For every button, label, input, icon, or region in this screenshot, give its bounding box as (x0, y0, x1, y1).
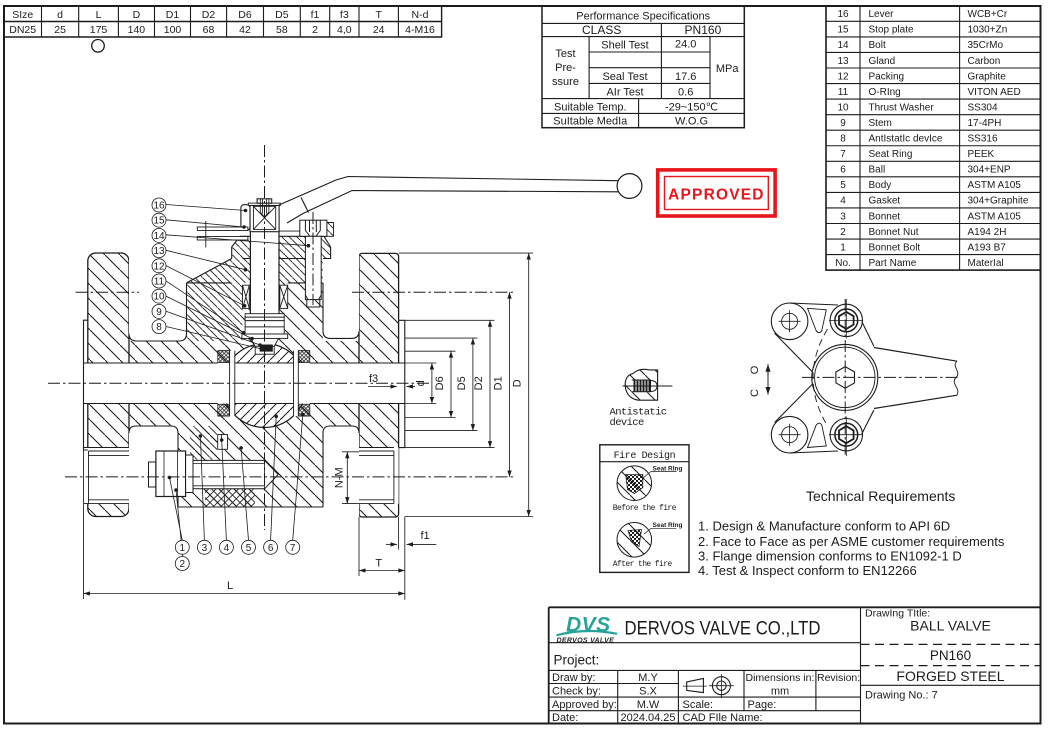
balloon 1 (175, 540, 189, 554)
gland outline (item 13) (187, 236, 331, 283)
svg-text:175: 175 (90, 24, 108, 36)
stem hex (836, 367, 855, 389)
svg-text:15: 15 (837, 25, 849, 36)
svg-text:After the fire: After the fire (613, 560, 673, 569)
svg-text:T: T (375, 558, 382, 570)
projection symbol (687, 678, 704, 692)
svg-text:11: 11 (838, 87, 849, 98)
svg-text:4. Test & Inspect conform to: 4. Test & Inspect conform to EN12266 (698, 563, 917, 578)
bonnet flange (hatched) (187, 283, 243, 341)
svg-text:DERVOS VALVE CO.,LTD: DERVOS VALVE CO.,LTD (625, 619, 821, 640)
svg-text:13: 13 (153, 246, 165, 257)
svg-text:D1: D1 (493, 376, 505, 390)
svg-text:SIze: SIze (12, 9, 33, 21)
svg-text:device: device (610, 417, 645, 429)
svg-text:A194 2H: A194 2H (968, 227, 1007, 238)
balloon 2 (175, 557, 189, 571)
svg-text:58: 58 (276, 24, 288, 36)
gland bolt (item 14) (300, 220, 327, 307)
svg-text:APPROVED: APPROVED (668, 187, 765, 204)
svg-text:14: 14 (153, 231, 165, 242)
svg-text:11: 11 (154, 277, 165, 288)
svg-text:7: 7 (290, 543, 296, 554)
svg-text:17.6: 17.6 (675, 71, 696, 83)
seat rings checkered (item 7) (218, 351, 310, 416)
svg-text:CAD FIle Name:: CAD FIle Name: (683, 712, 763, 724)
svg-text:10: 10 (837, 102, 849, 113)
svg-text:Gland: Gland (869, 56, 896, 67)
svg-text:MaterIal: MaterIal (968, 258, 1004, 269)
svg-text:Carbon: Carbon (968, 56, 1001, 67)
svg-text:d: d (415, 380, 427, 386)
svg-text:D6: D6 (238, 9, 252, 21)
APPROVED stamp (658, 170, 775, 216)
svg-text:35CrMo: 35CrMo (968, 40, 1004, 51)
svg-text:D2: D2 (473, 376, 485, 390)
antistatic device (item 8) (260, 345, 273, 352)
upper right U channel (white) (323, 259, 359, 339)
svg-text:A193 B7: A193 B7 (968, 242, 1007, 253)
upper left U channel (white) (129, 250, 187, 341)
svg-text:D2: D2 (202, 9, 216, 21)
balloon 15 (152, 213, 166, 227)
thrust washer and o-ring stack (items 10,11) (242, 314, 288, 354)
title block grid (549, 607, 1041, 723)
svg-text:304+Graphite: 304+Graphite (968, 196, 1029, 207)
dimension d (431, 363, 433, 404)
upper ear lug (771, 303, 808, 340)
svg-text:68: 68 (203, 24, 215, 36)
svg-text:3. Flange dimension conforms t: 3. Flange dimension conforms to EN1092-1… (698, 549, 962, 564)
svg-text:1: 1 (840, 242, 846, 253)
svg-text:9: 9 (156, 307, 162, 318)
stem top square block with cross (250, 205, 279, 231)
stem stud end (260, 199, 269, 217)
svg-text:SS316: SS316 (968, 134, 998, 145)
handle top view (874, 348, 957, 409)
svg-text:24: 24 (373, 24, 385, 36)
left raised face (84, 320, 88, 450)
dimension D2 (489, 320, 491, 447)
svg-text:C: C (749, 389, 761, 397)
svg-text:2. Face to Face as per ASME cu: 2. Face to Face as per ASME customer req… (698, 534, 1005, 549)
after-fire seat detail (617, 523, 652, 558)
svg-text:2: 2 (180, 559, 186, 570)
left flange lower bolt slot (white) (84, 448, 129, 504)
stem column (item 9) (250, 232, 279, 314)
svg-text:140: 140 (128, 24, 146, 36)
dimension T (359, 570, 405, 572)
svg-text:4: 4 (224, 543, 230, 554)
svg-text:Part Name: Part Name (869, 258, 917, 269)
parts list table (826, 6, 1041, 270)
svg-text:Approved by:: Approved by: (552, 699, 617, 711)
leader lines bottom row (170, 415, 303, 557)
dimension D6 (450, 351, 452, 417)
svg-text:Scale:: Scale: (683, 699, 714, 711)
svg-text:3: 3 (202, 543, 208, 554)
svg-text:Page:: Page: (748, 699, 777, 711)
svg-text:1: 1 (180, 543, 186, 554)
svg-text:d: d (57, 9, 63, 21)
svg-text:S.X: S.X (639, 685, 657, 697)
top view hub (812, 344, 878, 410)
centerlines (48, 145, 514, 530)
left flange tapped hole lines (84, 448, 129, 504)
svg-text:BALL VALVE: BALL VALVE (910, 618, 991, 634)
svg-text:SuItable MedIa: SuItable MedIa (553, 116, 628, 128)
dimension D1 (509, 292, 511, 477)
body right flange (hatched) (359, 253, 399, 517)
svg-text:D6: D6 (434, 376, 446, 390)
svg-text:Suitable Temp.: Suitable Temp. (554, 102, 627, 114)
svg-text:4,0: 4,0 (337, 24, 352, 36)
svg-text:Revision:: Revision: (817, 672, 860, 684)
extension lines (84, 253, 534, 600)
svg-text:Lever: Lever (869, 9, 895, 20)
svg-text:AIr Test: AIr Test (606, 87, 643, 99)
svg-text:6: 6 (840, 165, 846, 176)
svg-text:Seat Ring: Seat Ring (869, 149, 913, 160)
small circle below L column (92, 40, 105, 53)
svg-text:Draw by:: Draw by: (552, 672, 595, 684)
svg-text:Drawing No.: 7: Drawing No.: 7 (865, 690, 938, 702)
svg-text:Bonnet: Bonnet (869, 211, 901, 222)
balloon 3 (197, 540, 211, 554)
svg-text:ssure: ssure (552, 76, 579, 88)
svg-text:Test: Test (555, 48, 575, 60)
svg-text:10: 10 (153, 292, 165, 303)
svg-text:No.: No. (835, 258, 851, 269)
svg-text:8: 8 (840, 134, 846, 145)
balloon 9 (152, 304, 166, 318)
svg-text:Bolt: Bolt (869, 40, 886, 51)
lower ear lug (771, 416, 808, 453)
svg-text:Technical Requirements: Technical Requirements (806, 488, 955, 504)
balloon 12 (152, 259, 166, 273)
performance specifications table (542, 6, 744, 128)
svg-text:4-M16: 4-M16 (405, 24, 435, 36)
lower mounting bolt (830, 419, 862, 451)
lever (item 16) (279, 177, 618, 224)
svg-text:0.6: 0.6 (678, 87, 693, 99)
svg-text:Seal Test: Seal Test (602, 71, 647, 83)
lower left U channel (white) (129, 426, 178, 517)
svg-text:42: 42 (239, 24, 251, 36)
stop plate screws left (197, 221, 248, 248)
svg-text:T: T (375, 9, 382, 21)
svg-text:f1: f1 (421, 530, 430, 542)
before-fire seat detail (617, 466, 652, 501)
body middle lower band (hatched) (129, 404, 359, 427)
upper U channel outlines (129, 283, 359, 341)
gasket detail (item 4) (218, 435, 228, 450)
svg-text:L: L (96, 9, 102, 21)
antistatic device detail (625, 369, 657, 400)
gland and neck (hatched) (232, 236, 331, 283)
svg-text:Project:: Project: (554, 653, 600, 668)
svg-text:2: 2 (840, 227, 846, 238)
right flange lower bolt slot (white) (359, 448, 399, 504)
svg-text:f1: f1 (311, 9, 320, 21)
svg-text:25: 25 (54, 24, 66, 36)
svg-text:6: 6 (268, 543, 274, 554)
svg-text:ASTM A105: ASTM A105 (968, 211, 1022, 222)
balloon 16 (152, 198, 166, 212)
svg-text:VITON AED: VITON AED (968, 87, 1021, 98)
svg-text:D5: D5 (456, 376, 468, 390)
stem column white (250, 231, 279, 314)
right raised face (399, 320, 405, 447)
bottom boss (hatched) (178, 426, 323, 507)
svg-text:Date:: Date: (552, 712, 578, 724)
balloon 14 (152, 228, 166, 242)
svg-text:MPa: MPa (716, 63, 740, 75)
svg-text:FORGED STEEL: FORGED STEEL (896, 668, 1004, 684)
svg-text:16: 16 (837, 9, 849, 20)
svg-text:5: 5 (840, 180, 846, 191)
svg-text:D: D (133, 9, 141, 21)
svg-text:AntIstatIc devIce: AntIstatIc devIce (869, 134, 943, 145)
svg-text:Before the fire: Before the fire (613, 504, 677, 513)
svg-text:Check by:: Check by: (552, 685, 601, 697)
svg-text:12: 12 (153, 261, 165, 272)
svg-text:2024.04.25: 2024.04.25 (620, 712, 675, 724)
mounting plate outline (775, 303, 874, 453)
svg-text:4: 4 (840, 196, 846, 207)
seat holder lines (230, 351, 235, 416)
svg-text:100: 100 (164, 24, 182, 36)
svg-text:f3: f3 (340, 9, 349, 21)
ball (item 6) (223, 344, 307, 428)
packing boxes (item 12) (243, 285, 288, 308)
svg-text:O-RIng: O-RIng (869, 87, 901, 98)
svg-text:Ball: Ball (869, 165, 886, 176)
stop pin boss (322, 223, 334, 237)
dimension L (84, 593, 405, 595)
balloon 10 (152, 289, 166, 303)
svg-text:D5: D5 (275, 9, 289, 21)
body left flange (hatched) (88, 253, 129, 517)
svg-text:W.O.G: W.O.G (675, 116, 708, 128)
svg-text:Thrust Washer: Thrust Washer (869, 102, 935, 113)
svg-text:Packing: Packing (869, 71, 905, 82)
svg-text:SS304: SS304 (968, 102, 998, 113)
bolt circle dashed arc (813, 329, 828, 426)
bore channel (white) (84, 363, 405, 404)
balloon 7 (286, 540, 300, 554)
fire design box (600, 445, 689, 573)
right flange tapped hole lines (359, 448, 394, 504)
svg-text:9: 9 (840, 118, 846, 129)
bore edge lines (84, 363, 405, 404)
svg-text:Performance Specifications: Performance Specifications (576, 11, 710, 23)
svg-text:Body: Body (869, 180, 892, 191)
svg-text:CLASS: CLASS (582, 23, 621, 37)
svg-text:mm: mm (771, 685, 789, 697)
svg-text:17-4PH: 17-4PH (968, 118, 1002, 129)
stem top nut (item 16 mount) (257, 199, 272, 203)
svg-text:WCB+Cr: WCB+Cr (968, 9, 1008, 20)
balloon 13 (152, 244, 166, 258)
stop plate bar (248, 203, 280, 205)
svg-text:ASTM A105: ASTM A105 (968, 180, 1022, 191)
svg-text:13: 13 (837, 56, 849, 67)
svg-text:PN160: PN160 (930, 648, 971, 663)
bonnet flange top edges (187, 282, 323, 284)
svg-text:24.0: 24.0 (675, 39, 696, 51)
svg-text:Pre-: Pre- (555, 62, 576, 74)
svg-text:Gasket: Gasket (869, 196, 901, 207)
svg-text:12: 12 (837, 71, 849, 82)
svg-text:Stem: Stem (869, 118, 892, 129)
upper mounting bolt (830, 304, 862, 336)
svg-text:7: 7 (840, 149, 846, 160)
svg-text:2: 2 (312, 24, 318, 36)
svg-text:1. Design & Manufacture confor: 1. Design & Manufacture conform to API 6… (698, 519, 950, 534)
svg-text:Stop plate: Stop plate (869, 25, 914, 36)
svg-text:Graphite: Graphite (968, 71, 1007, 82)
balloon 4 (219, 540, 233, 554)
centerlines (802, 299, 959, 457)
svg-text:f3: f3 (369, 373, 378, 385)
svg-text:304+ENP: 304+ENP (968, 165, 1011, 176)
svg-text:1030+Zn: 1030+Zn (968, 25, 1008, 36)
svg-text:-29~150℃: -29~150℃ (665, 102, 718, 114)
body middle upper band (hatched) (129, 341, 359, 363)
svg-text:N-M: N-M (333, 467, 345, 488)
balloon 5 (242, 540, 256, 554)
svg-text:DERVOS VALVE: DERVOS VALVE (557, 638, 615, 645)
lower U channel outlines (129, 426, 359, 507)
svg-text:DN25: DN25 (9, 24, 36, 36)
svg-text:15: 15 (153, 216, 165, 227)
svg-text:3: 3 (840, 211, 846, 222)
svg-text:8: 8 (156, 322, 162, 333)
svg-text:D: D (512, 379, 524, 387)
svg-text:Shell Test: Shell Test (601, 40, 649, 52)
svg-text:O: O (749, 365, 761, 374)
balloon 11 (152, 274, 166, 288)
svg-text:M.Y: M.Y (638, 672, 658, 684)
svg-text:Bonnet Bolt: Bonnet Bolt (869, 242, 921, 253)
svg-text:16: 16 (153, 201, 165, 212)
svg-text:Dimensions in:: Dimensions in: (746, 672, 815, 684)
svg-text:L: L (227, 580, 233, 592)
balloon 8 (152, 320, 166, 334)
svg-text:D1: D1 (166, 9, 180, 21)
lower right U channel (white) (323, 426, 359, 517)
svg-text:Bonnet Nut: Bonnet Nut (869, 227, 919, 238)
stop plate bracket (item 15) (241, 205, 250, 231)
dimension table (4, 6, 442, 37)
svg-text:Fire Design: Fire Design (614, 450, 676, 462)
svg-text:N-d: N-d (412, 9, 429, 21)
svg-text:5: 5 (246, 543, 252, 554)
dimension D5 (472, 338, 474, 431)
svg-text:14: 14 (837, 40, 849, 51)
balloon 6 (264, 540, 278, 554)
svg-text:PEEK: PEEK (968, 149, 995, 160)
bottom bonnet bolt (item 1) and washer (149, 451, 279, 497)
svg-text:M.W: M.W (637, 699, 660, 711)
svg-text:PN160: PN160 (685, 23, 722, 37)
leader lines left stack (166, 205, 308, 350)
dimension D (528, 253, 530, 516)
dimension N-M (346, 452, 348, 504)
